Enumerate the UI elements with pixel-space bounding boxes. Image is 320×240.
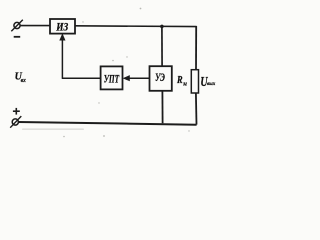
wire УЭ to УПТ with arrow <box>123 75 150 81</box>
block УПТ <box>101 66 123 89</box>
label Uвх <box>15 72 26 84</box>
wire Rн down to bottom rail <box>195 93 198 125</box>
svg-text:R: R <box>176 74 182 86</box>
svg-text:вх: вх <box>21 78 26 84</box>
block УЭ <box>150 66 172 91</box>
junction node <box>160 25 164 29</box>
wire terminal to ИЗ <box>20 25 51 27</box>
wire ИЗ to right corner <box>75 25 197 28</box>
terminal top-left (minus input) <box>11 20 22 37</box>
terminal bottom-left (plus input) <box>10 108 21 128</box>
svg-text:УЭ: УЭ <box>155 70 165 84</box>
load resistor Rн <box>176 70 198 93</box>
wire junction down to УЭ <box>161 26 163 66</box>
svg-text:ИЗ: ИЗ <box>55 22 68 34</box>
feedback wire УПТ to ИЗ <box>59 33 100 79</box>
label Uвых <box>200 75 215 90</box>
block ИЗ <box>50 19 75 34</box>
svg-text:УПТ: УПТ <box>104 74 120 86</box>
svg-text:н: н <box>183 80 187 87</box>
wire right corner down to Rн <box>195 26 197 70</box>
wire УЭ down to bottom rail <box>161 91 163 123</box>
svg-text:вых: вых <box>207 81 216 87</box>
bottom rail <box>18 122 196 125</box>
